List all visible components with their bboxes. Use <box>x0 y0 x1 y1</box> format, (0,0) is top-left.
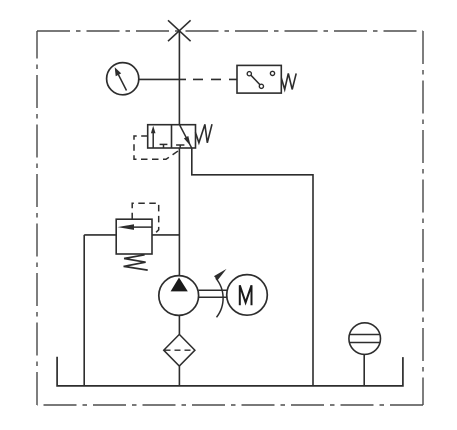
valve spring <box>195 124 212 143</box>
pressure gauge <box>107 63 139 95</box>
suction filter F1 <box>164 334 195 366</box>
relief valve spring <box>124 255 148 270</box>
tank return line from relief valve <box>83 235 85 386</box>
valve right position blocked port T <box>176 145 184 148</box>
pressure switch spring <box>281 73 296 89</box>
relief valve port line right <box>152 234 179 236</box>
line filter to tank <box>178 366 180 386</box>
valve right position flow diagonal <box>180 125 192 149</box>
relief valve flow arrow <box>133 226 152 228</box>
oil level gauge <box>349 323 381 355</box>
tank (reservoir) <box>57 357 403 386</box>
pilot line to pressure switch (dashed) <box>193 78 237 80</box>
relief valve RV body <box>116 219 152 254</box>
main pressure line (valve to pump) <box>178 148 180 276</box>
plugged outlet port X <box>168 20 191 41</box>
relief valve port line left <box>84 234 116 236</box>
valve left position flow arrow <box>152 131 154 148</box>
main pressure line (upper vertical) <box>178 31 180 125</box>
pump P1 <box>159 276 199 316</box>
valve left position blocked port T <box>160 144 168 148</box>
wire gauge to main line <box>139 78 186 80</box>
motor M1 <box>227 275 268 316</box>
valve pilot line (dashed) <box>134 136 179 159</box>
relief valve pilot line (dashed) <box>132 203 159 235</box>
drive shaft <box>199 290 227 297</box>
pressure switch S1 <box>237 65 281 93</box>
main line pump to filter <box>178 315 180 334</box>
enclosure border (dash-dot) <box>37 31 423 405</box>
solenoid valve V1 body <box>148 125 196 148</box>
tank return line from valve <box>192 148 313 386</box>
level gauge stem <box>363 354 365 386</box>
rotation direction arrow <box>216 278 223 317</box>
